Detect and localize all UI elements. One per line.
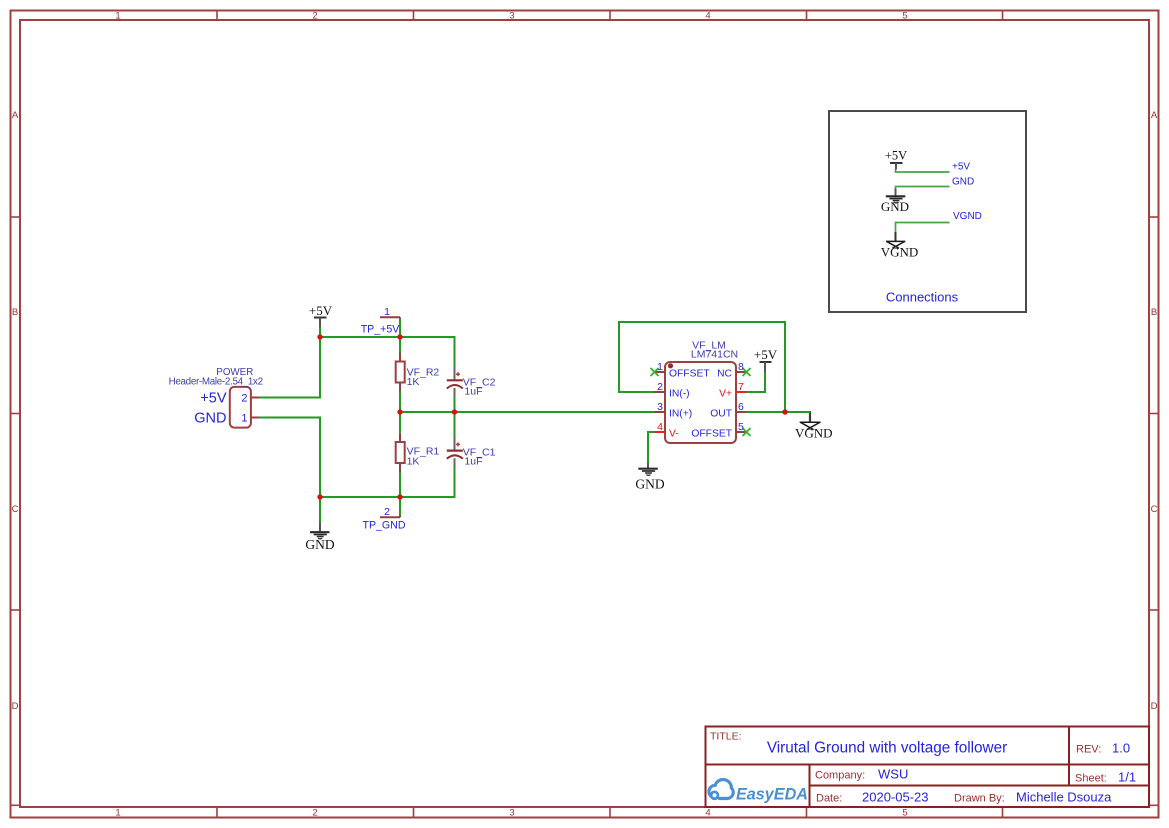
svg-text:1: 1: [657, 361, 663, 373]
frame column numbers top: [115, 11, 907, 22]
svg-text:GND: GND: [194, 411, 226, 427]
svg-text:WSU: WSU: [878, 767, 908, 782]
wire IN- feedback loop: [619, 322, 785, 412]
svg-text:VGND: VGND: [795, 425, 833, 440]
test point TP_+5V pin 1: [361, 306, 401, 337]
svg-text:2: 2: [384, 506, 390, 518]
power flag +5V (main rail): [309, 303, 333, 327]
resistor VF_R1 1K: [396, 433, 440, 472]
svg-text:+5V: +5V: [309, 303, 333, 318]
svg-text:4: 4: [705, 808, 710, 819]
svg-text:2: 2: [241, 393, 247, 405]
svg-text:OFFSET: OFFSET: [691, 429, 732, 440]
svg-text:1K: 1K: [407, 456, 420, 468]
svg-text:A: A: [12, 110, 19, 121]
svg-text:V+: V+: [719, 389, 732, 400]
wire +5V (connections box): [896, 170, 950, 173]
frame column numbers bottom: [115, 808, 907, 819]
svg-text:4: 4: [705, 11, 710, 22]
svg-text:2: 2: [312, 11, 317, 22]
pin 8 NC stub: [736, 371, 747, 373]
junction dots: [317, 334, 787, 499]
svg-text:1: 1: [115, 11, 120, 22]
svg-text:TITLE:: TITLE:: [710, 731, 742, 743]
svg-text:D: D: [1151, 701, 1158, 712]
svg-text:VGND: VGND: [953, 211, 982, 222]
resistor VF_R2 1K: [396, 353, 440, 392]
svg-text:3: 3: [509, 808, 514, 819]
svg-text:Virutal Ground with voltage fo: Virutal Ground with voltage follower: [767, 740, 1007, 757]
frame column ticks: [217, 11, 1003, 818]
svg-text:Company:: Company:: [815, 770, 865, 782]
svg-text:3: 3: [657, 401, 663, 413]
vground VGND (connections box): [881, 232, 919, 260]
frame row letters left: [12, 110, 19, 712]
title block lines: [706, 727, 1150, 808]
power flag +5V (connections box): [885, 149, 907, 170]
svg-text:7: 7: [738, 381, 744, 393]
wire V+ to +5V: [747, 373, 766, 393]
svg-text:GND: GND: [881, 199, 909, 214]
svg-text:5: 5: [902, 11, 907, 22]
svg-text:VGND: VGND: [881, 245, 919, 260]
svg-text:B: B: [1151, 307, 1157, 318]
frame row ticks: [11, 217, 1159, 805]
wire R2 top: [399, 337, 401, 353]
wire OUT to VGND: [747, 412, 811, 413]
pin 3 IN(+) stub: [655, 411, 666, 413]
capacitor VF_C2 1uF: [447, 367, 496, 398]
wire C2 bottom: [454, 396, 456, 413]
svg-text:8: 8: [738, 361, 744, 373]
wire +5V stem: [319, 327, 321, 337]
pin 7 V+ stub: [736, 391, 747, 393]
svg-text:B: B: [12, 307, 18, 318]
wire GND (connections box): [896, 187, 950, 190]
svg-text:1uF: 1uF: [464, 456, 482, 468]
svg-text:A: A: [1151, 110, 1158, 121]
svg-text:C: C: [12, 504, 19, 515]
svg-text:4: 4: [657, 421, 663, 433]
svg-text:EasyEDA: EasyEDA: [736, 786, 808, 804]
wire C1 bottom: [454, 467, 456, 497]
no-connect X pin 1: [651, 368, 659, 376]
svg-text:C: C: [1151, 504, 1158, 515]
svg-text:+5V: +5V: [885, 149, 907, 163]
svg-text:1K: 1K: [407, 376, 420, 388]
svg-text:GND: GND: [305, 537, 334, 552]
svg-text:Sheet:: Sheet:: [1075, 773, 1107, 785]
svg-text:2: 2: [312, 808, 317, 819]
svg-text:1: 1: [384, 306, 390, 318]
capacitor VF_C1 1uF: [447, 437, 496, 468]
frame row letters right: [1151, 110, 1158, 712]
svg-text:Date:: Date:: [816, 793, 842, 805]
pin 6 OUT stub: [736, 411, 747, 413]
power flag +5V (op-amp V+): [754, 347, 778, 373]
svg-text:Drawn By:: Drawn By:: [954, 793, 1005, 805]
wire header pin1 to GND rail: [259, 418, 320, 498]
no-connect X pin 8: [743, 368, 751, 376]
svg-text:NC: NC: [717, 369, 732, 380]
wire R1 top: [399, 412, 401, 433]
svg-text:+5V: +5V: [200, 391, 227, 407]
svg-text:LM741CN: LM741CN: [691, 349, 738, 361]
connector P1 Header-Male-2.54_1x2 POWER: [169, 367, 263, 428]
svg-text:1.0: 1.0: [1112, 741, 1130, 756]
svg-text:2: 2: [657, 381, 663, 393]
pin 5 OFFSET stub: [736, 431, 747, 433]
svg-text:Header-Male-2.54_1x2: Header-Male-2.54_1x2: [169, 377, 263, 388]
svg-text:OUT: OUT: [710, 409, 732, 420]
svg-text:3: 3: [509, 11, 514, 22]
svg-text:5: 5: [738, 421, 744, 433]
svg-text:REV:: REV:: [1076, 744, 1101, 756]
ground GND (op-amp V-): [635, 463, 664, 491]
wire R1 bottom: [399, 472, 401, 497]
svg-text:Connections: Connections: [886, 290, 959, 305]
svg-text:D: D: [12, 701, 19, 712]
wire bottom rail: [320, 467, 455, 497]
svg-text:5: 5: [902, 808, 907, 819]
svg-text:+5V: +5V: [754, 347, 778, 362]
svg-text:IN(+): IN(+): [669, 409, 692, 420]
svg-text:OFFSET: OFFSET: [669, 369, 710, 380]
wire +5V vertical to header pin2: [259, 337, 320, 398]
connections box: [829, 111, 1026, 312]
wire R2 bottom: [399, 392, 401, 413]
svg-text:GND: GND: [952, 176, 974, 187]
svg-text:IN(-): IN(-): [669, 389, 690, 400]
svg-text:TP_GND: TP_GND: [363, 520, 406, 532]
ground GND (connections box): [881, 189, 909, 215]
pin 2 IN(-) stub: [655, 391, 666, 393]
wire C2 top: [454, 337, 456, 367]
svg-text:GND: GND: [635, 476, 664, 491]
svg-text:1: 1: [241, 413, 247, 425]
wire VGND (connections box): [896, 223, 950, 233]
svg-text:6: 6: [738, 401, 744, 413]
wire middle rail to op-amp IN+: [400, 411, 655, 413]
svg-text:+5V: +5V: [952, 162, 970, 173]
pin 1 OFFSET stub: [655, 371, 666, 373]
svg-text:V-: V-: [669, 429, 679, 440]
op-amp U1 VF_LM LM741CN: [651, 340, 751, 444]
svg-text:1/1: 1/1: [1118, 770, 1136, 785]
pin 4 V- stub: [655, 431, 666, 433]
ground GND (below header rail): [305, 497, 334, 552]
wire top rail: [320, 337, 455, 367]
vground VGND (op-amp OUT): [795, 413, 833, 441]
no-connect X pin 5: [743, 428, 751, 436]
svg-text:TP_+5V: TP_+5V: [361, 324, 401, 336]
svg-text:1uF: 1uF: [464, 386, 482, 398]
test point TP_GND pin 2: [363, 497, 406, 532]
svg-text:1: 1: [115, 808, 120, 819]
svg-text:2020-05-23: 2020-05-23: [862, 790, 929, 805]
EasyEDA logo: [709, 780, 808, 804]
wire C1 top: [454, 412, 456, 437]
svg-text:Michelle Dsouza: Michelle Dsouza: [1016, 790, 1112, 805]
wire V- to GND: [648, 432, 655, 463]
